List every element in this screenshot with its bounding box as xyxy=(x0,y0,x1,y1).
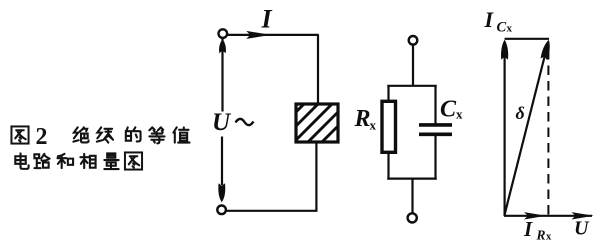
total current vector shaft (slanted) xyxy=(504,45,547,216)
svg-text:x: x xyxy=(507,23,513,35)
glyph liang xyxy=(104,153,118,169)
arrowhead IRx on axis xyxy=(524,212,546,219)
svg-text:C: C xyxy=(440,97,457,123)
arrowhead up (voltage arrow toward top terminal) xyxy=(219,39,226,53)
svg-text:δ: δ xyxy=(516,103,525,123)
svg-text:U: U xyxy=(212,109,232,136)
glyph dian xyxy=(15,153,28,168)
glyph lu xyxy=(34,154,49,168)
wire left lower (left circuit) xyxy=(221,137,223,186)
middle circuit wires xyxy=(387,45,436,214)
caption line 2: 电路和相量图 xyxy=(15,152,142,169)
wire from top terminal down xyxy=(412,45,414,86)
total current vector head xyxy=(540,39,552,60)
vertical vector ICx shaft xyxy=(504,52,506,216)
top bus bar xyxy=(387,85,436,87)
current arrow I on top wire xyxy=(246,31,270,39)
svg-text:U: U xyxy=(574,218,590,240)
svg-text:x: x xyxy=(456,107,463,122)
svg-text:C: C xyxy=(497,20,507,36)
top construction line xyxy=(505,38,549,40)
glyph he xyxy=(57,154,73,168)
resistor Rx body xyxy=(382,101,396,152)
wire left upper (left circuit) xyxy=(221,38,223,112)
glyph tu (figure) xyxy=(11,126,28,143)
svg-text:I: I xyxy=(523,217,533,241)
terminal node top (middle circuit) xyxy=(409,36,418,45)
svg-text:I: I xyxy=(484,7,495,32)
glyph yuan xyxy=(97,127,113,142)
wire right side upper (left circuit) xyxy=(317,35,319,104)
glyph de xyxy=(126,127,141,141)
svg-text:I: I xyxy=(261,5,273,34)
wire capacitor bottom to bottom bar xyxy=(434,135,436,180)
capacitor Cx bottom plate xyxy=(419,133,452,137)
svg-text:R: R xyxy=(354,106,371,132)
glyph jue xyxy=(73,127,88,142)
wire to capacitor top xyxy=(434,86,436,125)
arrowhead U at end of axis xyxy=(572,212,594,219)
wire bottom bar to bottom terminal xyxy=(411,179,413,214)
svg-text:x: x xyxy=(370,118,377,133)
caption line 1: 图 2 绝缘的等值 (hand-drawn glyphs) xyxy=(11,124,189,150)
hatched impedance box xyxy=(258,95,369,150)
terminal node bottom-left xyxy=(217,206,226,215)
arrowhead down (voltage arrow toward bottom terminal) xyxy=(218,183,225,202)
capacitor Cx top plate xyxy=(419,123,452,127)
glyph deng xyxy=(149,127,164,143)
wire to resistor top xyxy=(387,86,389,102)
terminal node bottom (middle circuit) xyxy=(408,213,417,222)
glyph zhi xyxy=(173,127,189,142)
svg-text:2: 2 xyxy=(36,124,48,150)
svg-text:R: R xyxy=(536,228,546,243)
dashed projection line xyxy=(547,50,549,216)
svg-text:x: x xyxy=(546,232,552,243)
glyph tu (figure) again xyxy=(125,152,142,169)
wire right side lower (left circuit) xyxy=(315,142,317,211)
tilde of U~ xyxy=(236,119,254,125)
horizontal axis (U direction) xyxy=(504,215,592,217)
terminal node top-left xyxy=(219,29,228,38)
glyph xiang xyxy=(80,154,95,168)
wire bottom of left circuit xyxy=(226,210,318,212)
wire top of left circuit xyxy=(227,34,319,36)
wire resistor bottom to bottom bar xyxy=(387,152,389,180)
vertical vector ICx head xyxy=(501,40,508,60)
bottom bus bar xyxy=(387,178,436,180)
